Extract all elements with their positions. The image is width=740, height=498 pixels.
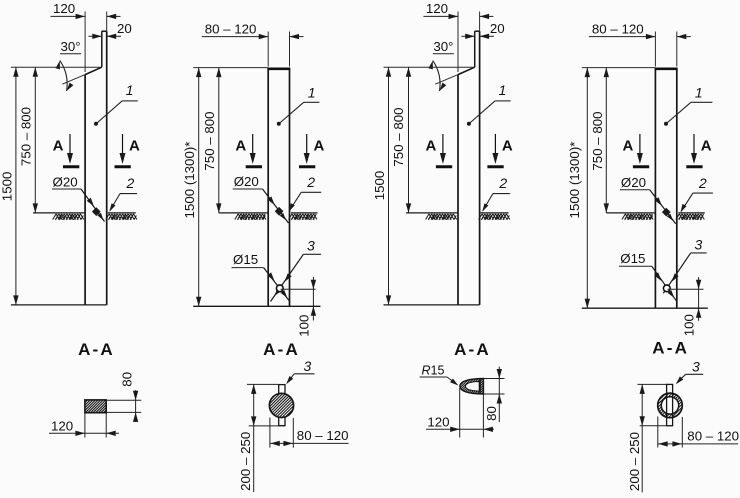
svg-text:120: 120 <box>51 419 73 434</box>
post top tip edge <box>474 31 476 67</box>
post left edge <box>654 69 656 309</box>
pipe post section col4 inner circle <box>661 397 678 414</box>
dimension 120 (top width) <box>51 15 86 17</box>
30deg dimension arc <box>60 61 67 91</box>
extension line above left edge <box>84 12 86 73</box>
rod crossing centre mark <box>663 285 670 292</box>
ground line left <box>606 212 655 214</box>
section arrow A left <box>252 134 254 156</box>
section3 80 dimension <box>498 367 500 422</box>
post left edge <box>457 75 459 305</box>
svg-text:30°: 30° <box>61 39 81 54</box>
svg-text:A: A <box>53 138 64 155</box>
post left edge <box>84 75 86 305</box>
svg-text:A-A: A-A <box>454 340 491 359</box>
svg-text:200 – 250: 200 – 250 <box>238 432 253 491</box>
svg-text:30°: 30° <box>433 39 453 54</box>
pipe post section col4 outer circle <box>658 393 683 418</box>
label 2 leader <box>120 193 137 195</box>
svg-text:Ø15: Ø15 <box>620 251 645 266</box>
svg-text:1500 (1300)*: 1500 (1300)* <box>567 142 582 219</box>
bevel extension line <box>435 75 458 85</box>
dimension 80-120 col2 section <box>269 418 271 448</box>
svg-text:2: 2 <box>126 175 135 191</box>
section 80 dim extension lines <box>106 399 141 401</box>
post 30deg bevel cut <box>458 67 475 74</box>
post top tip edge <box>101 31 103 67</box>
dimension 20 (tip width) <box>461 35 474 37</box>
label 1 leader <box>691 101 713 103</box>
section3 120 dim extension lines <box>459 388 461 438</box>
svg-text:Ø20: Ø20 <box>53 175 78 190</box>
svg-text:1: 1 <box>695 85 703 101</box>
svg-text:A: A <box>314 138 325 155</box>
anchor rod crossing (upper-right to lower-left) <box>271 254 304 301</box>
svg-text:80 – 120: 80 – 120 <box>205 22 257 37</box>
label 2 leader <box>301 191 321 193</box>
top reference extension line <box>582 67 656 69</box>
section3 right edge <box>479 380 481 394</box>
label 1 leader <box>495 100 511 102</box>
ground hatch left <box>53 214 84 220</box>
section arrow A right <box>122 134 124 156</box>
svg-text:120: 120 <box>426 1 448 16</box>
svg-text:750 – 800: 750 – 800 <box>18 107 33 166</box>
ground hatch left <box>235 214 266 220</box>
svg-text:A-A: A-A <box>652 339 689 358</box>
label 3 leader col2 section <box>294 373 314 375</box>
svg-text:3: 3 <box>304 358 312 374</box>
post top cap <box>267 68 290 71</box>
section 80 dimension <box>135 390 137 422</box>
ground line left <box>219 212 268 214</box>
svg-text:A: A <box>701 138 712 155</box>
dimension 100 col4 <box>668 288 704 290</box>
svg-text:A: A <box>426 138 437 155</box>
section 120 dimension <box>49 432 119 434</box>
top reference extension line <box>11 66 102 68</box>
svg-text:1500: 1500 <box>0 172 15 202</box>
svg-text:120: 120 <box>427 414 449 429</box>
svg-text:3: 3 <box>695 236 703 252</box>
post top cap <box>102 30 107 32</box>
svg-text:750 – 800: 750 – 800 <box>590 111 605 170</box>
post top cap <box>655 68 678 71</box>
ground line right <box>481 212 509 214</box>
bottom extension line / post bottom <box>384 304 480 306</box>
label 3 leader col4 section <box>686 373 704 375</box>
plank (rail) through section col2 <box>278 385 280 394</box>
dimension 750-800 <box>218 68 220 213</box>
ground line right <box>291 212 318 214</box>
label R15 leader <box>420 376 447 378</box>
post top cap <box>475 30 480 32</box>
svg-text:R15: R15 <box>422 364 445 378</box>
post 30deg bevel cut <box>85 67 102 74</box>
anchor rod O20 diagonal <box>650 190 676 224</box>
svg-text:100: 100 <box>296 315 311 337</box>
extension line above right edge <box>106 12 108 32</box>
dimension 20 (tip width) <box>89 35 102 37</box>
svg-text:1: 1 <box>499 82 507 98</box>
dimension 80-120 col4 section <box>657 417 659 448</box>
section 120 dim extension lines <box>84 413 86 438</box>
extension lines above post <box>654 32 656 67</box>
post left edge <box>267 69 269 307</box>
ground line right <box>678 212 705 214</box>
svg-text:100: 100 <box>682 314 697 336</box>
svg-text:120: 120 <box>53 1 75 16</box>
svg-text:1: 1 <box>126 82 134 98</box>
section arrow A right <box>306 134 308 156</box>
svg-text:A-A: A-A <box>78 340 115 359</box>
ground hatch right <box>676 214 704 220</box>
svg-text:2: 2 <box>698 175 707 191</box>
svg-text:80 – 120: 80 – 120 <box>592 22 644 37</box>
svg-text:20: 20 <box>117 21 132 36</box>
ground line left <box>33 212 85 214</box>
anchor rod O15 diagonal (upper-left to lower-right) <box>652 266 677 302</box>
post right edge <box>106 31 108 305</box>
plank (rail) through section col4 <box>666 384 668 425</box>
ground hatch right <box>106 214 137 220</box>
dimension 80-120 (top width) <box>202 36 269 38</box>
dimension 80-120 (top width) <box>589 36 656 38</box>
svg-text:A: A <box>502 138 513 155</box>
30deg dimension arc <box>433 61 440 91</box>
anchor rod O15 diagonal (upper-left to lower-right) <box>264 268 290 302</box>
label 1 leader <box>304 101 320 103</box>
ground hatch right <box>289 214 317 220</box>
dimension 1500 (1300)* (overall length) <box>198 68 200 307</box>
dimension 750-800 (height above ground) <box>408 67 410 213</box>
dimension 750-800 (height above ground) <box>34 67 36 213</box>
svg-text:750 – 800: 750 – 800 <box>391 107 406 166</box>
svg-text:1: 1 <box>308 85 316 101</box>
ground hatch left <box>622 214 653 220</box>
svg-text:1500: 1500 <box>372 171 387 201</box>
rod crossing centre mark <box>276 285 283 292</box>
dimension 200-250 col4 <box>638 383 667 385</box>
svg-text:80: 80 <box>484 406 499 421</box>
ground line right <box>108 212 136 214</box>
svg-text:20: 20 <box>490 21 505 36</box>
anchor rod crossing (upper-right to lower-left) <box>663 253 690 293</box>
bottom extension line / post bottom <box>11 304 107 306</box>
svg-text:2: 2 <box>306 174 315 190</box>
post right edge <box>479 31 481 305</box>
dimension 200-250 col2 <box>247 383 279 385</box>
label 1 leader <box>122 100 138 102</box>
svg-text:80: 80 <box>120 372 135 387</box>
svg-text:80 – 120: 80 – 120 <box>297 428 349 443</box>
post right edge <box>676 69 678 309</box>
anchor rod O20 diagonal <box>81 189 105 222</box>
extension lines above post <box>267 32 269 67</box>
svg-text:1500 (1300)*: 1500 (1300)* <box>182 142 197 219</box>
svg-text:3: 3 <box>307 238 315 254</box>
ground hatch left <box>426 214 457 220</box>
extension line above right edge <box>479 12 481 32</box>
section arrow A right <box>494 134 496 156</box>
top reference extension line <box>384 66 475 68</box>
svg-text:A: A <box>129 138 140 155</box>
svg-text:Ø20: Ø20 <box>234 174 259 189</box>
svg-text:80 – 120: 80 – 120 <box>687 429 739 444</box>
svg-text:A: A <box>235 138 246 155</box>
dimension 100 col2 <box>281 288 316 290</box>
svg-text:A: A <box>623 138 634 155</box>
ground hatch right <box>479 214 510 220</box>
bevel extension line <box>62 75 85 85</box>
svg-text:750 – 800: 750 – 800 <box>202 111 217 170</box>
svg-text:Ø20: Ø20 <box>621 175 646 190</box>
svg-text:A-A: A-A <box>263 340 300 359</box>
dimension 1500 (overall length) <box>388 67 390 305</box>
section3 80 dim extension lines <box>483 378 504 380</box>
post right edge <box>289 69 291 307</box>
dimension 1500 (1300)* (overall length) <box>586 68 588 309</box>
section arrow A right <box>693 134 695 156</box>
dimension 750-800 <box>605 68 607 213</box>
svg-text:200 – 250: 200 – 250 <box>627 432 642 491</box>
dimension 1500 (overall length) <box>15 67 17 305</box>
label 2 leader <box>693 192 713 194</box>
section arrow A left <box>69 134 71 156</box>
extension line above left edge <box>457 12 459 73</box>
label 2 leader <box>493 193 510 195</box>
dimension 120 (top width) <box>423 15 458 17</box>
bottom extension line / post bottom <box>582 307 708 309</box>
bottom extension line / post bottom <box>193 305 320 307</box>
section3 120 dimension <box>426 428 494 430</box>
ground line left <box>406 212 458 214</box>
svg-text:3: 3 <box>692 358 700 374</box>
top reference extension line <box>193 67 268 69</box>
section arrow A left <box>639 134 641 156</box>
anchor rod O20 diagonal <box>263 189 289 223</box>
section arrow A left <box>442 134 444 156</box>
svg-text:2: 2 <box>498 175 507 191</box>
svg-text:Ø15: Ø15 <box>233 252 258 267</box>
